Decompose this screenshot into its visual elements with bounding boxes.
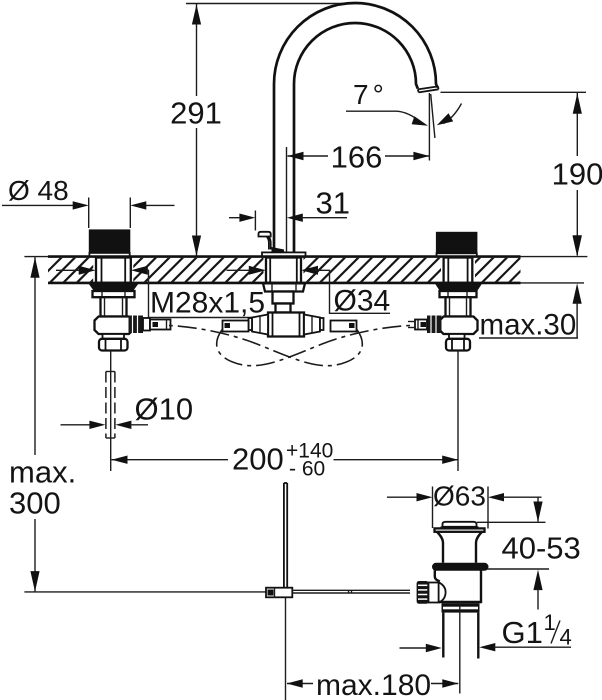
- svg-text:1: 1: [544, 610, 556, 635]
- svg-text:Ø10: Ø10: [135, 392, 194, 427]
- svg-text:190: 190: [552, 157, 602, 192]
- svg-text:300: 300: [9, 486, 61, 521]
- svg-text:Ø34: Ø34: [334, 285, 391, 318]
- svg-text:- 60: - 60: [289, 458, 325, 481]
- svg-text:166: 166: [331, 140, 383, 175]
- svg-text:291: 291: [170, 96, 222, 131]
- svg-text:7°: 7°: [353, 79, 388, 110]
- svg-text:max.: max.: [9, 455, 76, 490]
- svg-text:4: 4: [560, 625, 572, 650]
- svg-text:max.180: max.180: [316, 669, 431, 700]
- svg-text:40-53: 40-53: [502, 531, 581, 566]
- svg-text:max.30: max.30: [480, 309, 577, 342]
- svg-text:200: 200: [232, 442, 284, 477]
- svg-text:M28x1,5: M28x1,5: [150, 287, 265, 320]
- svg-text:31: 31: [316, 186, 350, 221]
- svg-text:Ø63: Ø63: [433, 481, 486, 512]
- svg-text:G1: G1: [502, 615, 543, 650]
- svg-text:Ø 48: Ø 48: [8, 175, 69, 206]
